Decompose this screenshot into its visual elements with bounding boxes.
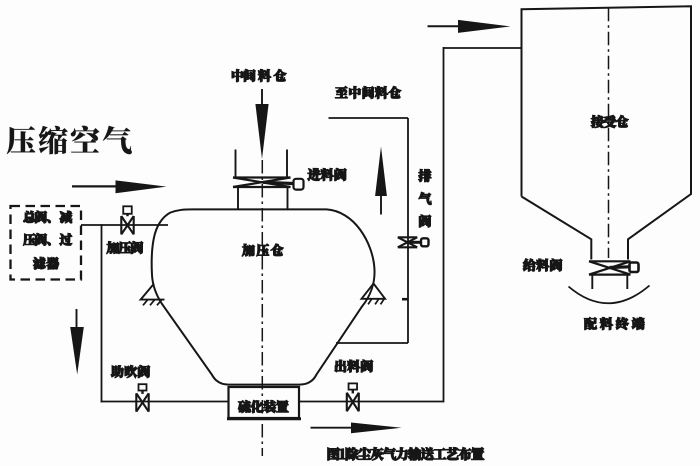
receiver outlet stub [591,275,593,289]
text jieshoucang-text [591,115,628,127]
valve 给料阀 (feeder valve) [589,260,631,262]
arrow right into receiver [428,25,462,27]
arrow right (conveying flow) [311,427,354,429]
receiver center line (dash-dot) [608,8,610,258]
text geiliaofa-text [523,259,562,271]
text zhongjian-text [232,69,286,81]
arrow up (vent flow) [380,195,382,215]
text zhizhongjian-text [335,86,401,98]
arrow compressed air inlet [72,185,117,187]
support left [141,284,165,300]
valve 助吹阀 (assist blow valve) [139,384,147,390]
intermediate silo outlet tube [235,150,237,177]
vessel inlet neck [237,188,239,210]
text filter-text-2 [23,233,72,245]
stub on vent pipe [402,298,408,301]
valve 进料阀 (feed valve) [233,176,291,178]
arrow down from intermediate silo [261,89,263,105]
text filter-text-3 [33,257,59,269]
vessel 加压仓 outline [152,209,375,384]
valve 排气阀 symbol [398,236,417,238]
text chuliaofa-text [335,360,373,372]
valve 加压阀 (pressurize valve) [123,206,132,214]
text zhuchuifa-text [111,365,150,377]
bottom pipe left segment [101,401,229,403]
support right [362,284,386,299]
text paiqifa-text [419,169,432,227]
filter unit box (总阀、减压阀、过滤器) [11,206,82,280]
text caption-text [328,447,484,460]
conveying pipe riser [443,47,445,402]
valve 出料阀 (discharge valve) [349,383,358,389]
unloading arc 配料终端 [569,286,650,304]
receiver silo 接受仓 outline [522,6,692,259]
text filter-text-1 [23,211,71,223]
text jinliaofa-text [308,168,347,180]
text jiayacang-text [242,244,283,256]
pipe down-left branch [101,224,103,402]
bottom pipe right segment [299,401,444,403]
text jiayafa-text [107,241,143,253]
vessel center line (dash-dot) [261,160,263,456]
pipe from filter box to vessel [81,224,168,226]
arrow down (left branch flow) [76,309,78,328]
fluidizer box 流化装置 [229,387,300,418]
vent pipe loop (right of vessel) [336,342,408,344]
text peiliao-text [584,317,644,329]
text compressed-air-text [7,126,132,155]
text liuhua-text [238,400,288,412]
